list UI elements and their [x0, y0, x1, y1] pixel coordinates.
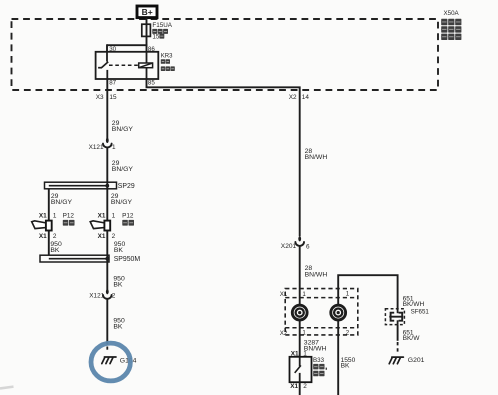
relay coil — [139, 52, 153, 79]
wire clockspring right coil to SF651 branch — [338, 275, 397, 309]
battery feed B+ — [137, 6, 157, 18]
relay pin 30 — [109, 46, 116, 53]
svg-text:P12: P12 — [63, 213, 75, 220]
svg-text:2: 2 — [303, 383, 307, 390]
svg-text:SP29: SP29 — [118, 183, 135, 190]
splice SP29 — [45, 182, 135, 190]
wire branch to relay pin 30 — [107, 44, 147, 52]
circuit 29 BN/GY upper — [112, 120, 134, 133]
circuit 28 BN/WH upper — [305, 148, 328, 161]
svg-text:2: 2 — [346, 330, 350, 337]
svg-text:30: 30 — [109, 46, 116, 53]
in-line connector X121 pin 2 — [89, 289, 116, 300]
circuit 950 BK left — [50, 241, 62, 254]
svg-text:B+: B+ — [142, 7, 153, 17]
svg-text:BN/GY: BN/GY — [51, 199, 73, 206]
svg-text:X1: X1 — [39, 213, 47, 220]
svg-text:X1: X1 — [39, 233, 47, 240]
clockspring connector X2 row — [280, 330, 350, 338]
svg-text:BN/GY: BN/GY — [111, 199, 133, 206]
circuit 29 BN/GY right horn — [111, 193, 133, 206]
svg-text:6: 6 — [306, 243, 310, 250]
splice SP950M — [40, 255, 140, 263]
svg-text:P12: P12 — [122, 213, 134, 220]
wire SP950M to X121-2 — [106, 262, 108, 290]
fuse F15UA 15A — [142, 22, 173, 40]
svg-text:X1: X1 — [98, 233, 106, 240]
wire left horn to SP950M — [48, 231, 50, 256]
wire X121 to SP29 and down to right horn — [106, 148, 108, 221]
svg-text:1: 1 — [346, 291, 350, 298]
ground G104 — [102, 357, 137, 364]
svg-text:X121: X121 — [89, 293, 104, 300]
relay pin 85 — [148, 80, 155, 87]
svg-text:BN/WH: BN/WH — [305, 154, 328, 161]
svg-text:BK: BK — [114, 247, 124, 254]
svg-text:1: 1 — [302, 330, 306, 337]
in-line connector X201 pin 6 — [281, 236, 310, 250]
svg-text:2: 2 — [112, 293, 116, 300]
circuit 29 BN/GY above SP29 — [112, 160, 134, 173]
svg-text:BK: BK — [341, 363, 350, 370]
clockspring coil left spiral — [292, 305, 307, 320]
relay control dashed link — [109, 64, 138, 66]
svg-text:BK: BK — [113, 281, 123, 288]
wire relay 87 down to X121 — [106, 79, 108, 140]
B33 connector X1 pin 2 — [290, 383, 307, 390]
wire left spiral down to B33 — [299, 320, 301, 357]
in-line connector X121 pin 1 — [89, 138, 116, 151]
svg-text:85: 85 — [148, 80, 155, 87]
svg-text:86: 86 — [148, 46, 155, 53]
wire B33 to page bottom — [299, 382, 301, 395]
svg-text:BN/WH: BN/WH — [304, 345, 327, 352]
svg-text:14: 14 — [302, 94, 310, 101]
svg-text:87: 87 — [109, 80, 116, 87]
svg-text:1: 1 — [302, 291, 306, 298]
svg-text:X2: X2 — [280, 330, 288, 337]
svg-text:BK/WH: BK/WH — [403, 301, 425, 308]
clockspring connector X1 row — [280, 291, 350, 299]
circuit 950 BK right — [114, 241, 126, 254]
svg-text:2: 2 — [53, 233, 57, 240]
right horn connector X1 pin 1 — [98, 213, 116, 220]
left horn connector X1 pin 1 — [39, 213, 57, 220]
horn P12 right — [90, 213, 134, 231]
wire X201 to clockspring — [299, 246, 301, 305]
svg-text:1: 1 — [53, 213, 57, 220]
svg-text:15: 15 — [152, 34, 160, 41]
label X50A 发动机舱下保险丝盒 — [441, 10, 461, 40]
circuit 29 BN/GY left horn — [51, 193, 73, 206]
svg-text:1: 1 — [112, 144, 116, 151]
relay pin 87 — [109, 80, 116, 87]
svg-text:BK: BK — [113, 323, 123, 330]
svg-text:B33: B33 — [313, 357, 325, 364]
relay label KR3 喇叭继电器 — [161, 53, 175, 71]
svg-text:X50A: X50A — [444, 10, 460, 17]
circuit 651 BK/WH — [403, 295, 425, 308]
svg-text:2: 2 — [112, 233, 116, 240]
scan artifact streak bottom-left — [0, 387, 14, 389]
wire stubs through SF651 — [397, 309, 399, 325]
svg-text:X3: X3 — [96, 94, 104, 101]
highlight circle around G104 — [91, 343, 130, 381]
svg-text:X2: X2 — [289, 94, 297, 101]
circuit 651 BK/W — [403, 329, 421, 342]
wire right horn to SP950M — [106, 231, 108, 263]
wire SF651 to G201 (partly dashed) — [397, 325, 399, 354]
relay switch contact — [98, 52, 108, 79]
right horn connector X1 pin 2 — [98, 233, 116, 240]
svg-text:X201: X201 — [281, 243, 297, 250]
svg-text:KR3: KR3 — [161, 53, 173, 59]
left horn connector X1 pin 2 — [39, 233, 57, 240]
circuit 950 BK — [113, 276, 125, 289]
wire right spiral down to page bottom, circuit 1550 BK — [338, 320, 355, 395]
svg-text:BK: BK — [50, 247, 60, 254]
svg-text:1: 1 — [112, 213, 116, 220]
relay KR3 box — [96, 52, 159, 79]
svg-text:15: 15 — [109, 94, 117, 101]
connector X3 pin 15 — [96, 94, 117, 101]
svg-text:G201: G201 — [408, 357, 425, 364]
wire X121-2 to ground — [106, 299, 108, 352]
svg-text:X1: X1 — [290, 383, 298, 390]
wire SP29 left drop to left horn — [48, 189, 50, 221]
connector X2 pin 14 — [289, 94, 310, 101]
svg-text:BN/WH: BN/WH — [305, 271, 328, 278]
horn P12 left — [32, 213, 75, 231]
wire relay 85 to connector X2-14 and down — [147, 79, 300, 236]
svg-text:F15UA: F15UA — [152, 22, 172, 29]
B33 connector X1 pin 1 — [291, 351, 307, 358]
clockspring coil right spiral — [331, 305, 346, 320]
fuse box X50A dashed enclosure — [12, 19, 439, 90]
wire B+ down through fuse to relay — [146, 18, 148, 52]
fusible link SF651 — [385, 308, 429, 324]
svg-text:SP950M: SP950M — [114, 256, 141, 263]
relay pin 86 — [148, 46, 155, 53]
svg-text:X1: X1 — [98, 213, 106, 220]
svg-text:BN/GY: BN/GY — [112, 126, 134, 133]
svg-text:BN/GY: BN/GY — [112, 166, 134, 173]
svg-text:X1: X1 — [280, 291, 288, 298]
circuit 950 BK lower — [113, 318, 125, 331]
svg-text:X121: X121 — [89, 144, 104, 151]
svg-text:BK/W: BK/W — [403, 335, 421, 342]
circuit 3287 BN/WH — [304, 339, 327, 352]
svg-text:SF651: SF651 — [411, 308, 430, 315]
circuit 28 BN/WH lower — [305, 265, 328, 278]
ground G201 — [389, 357, 424, 364]
steering wheel clockspring coil dashed box — [285, 289, 358, 335]
horn switch B33 — [290, 357, 328, 382]
